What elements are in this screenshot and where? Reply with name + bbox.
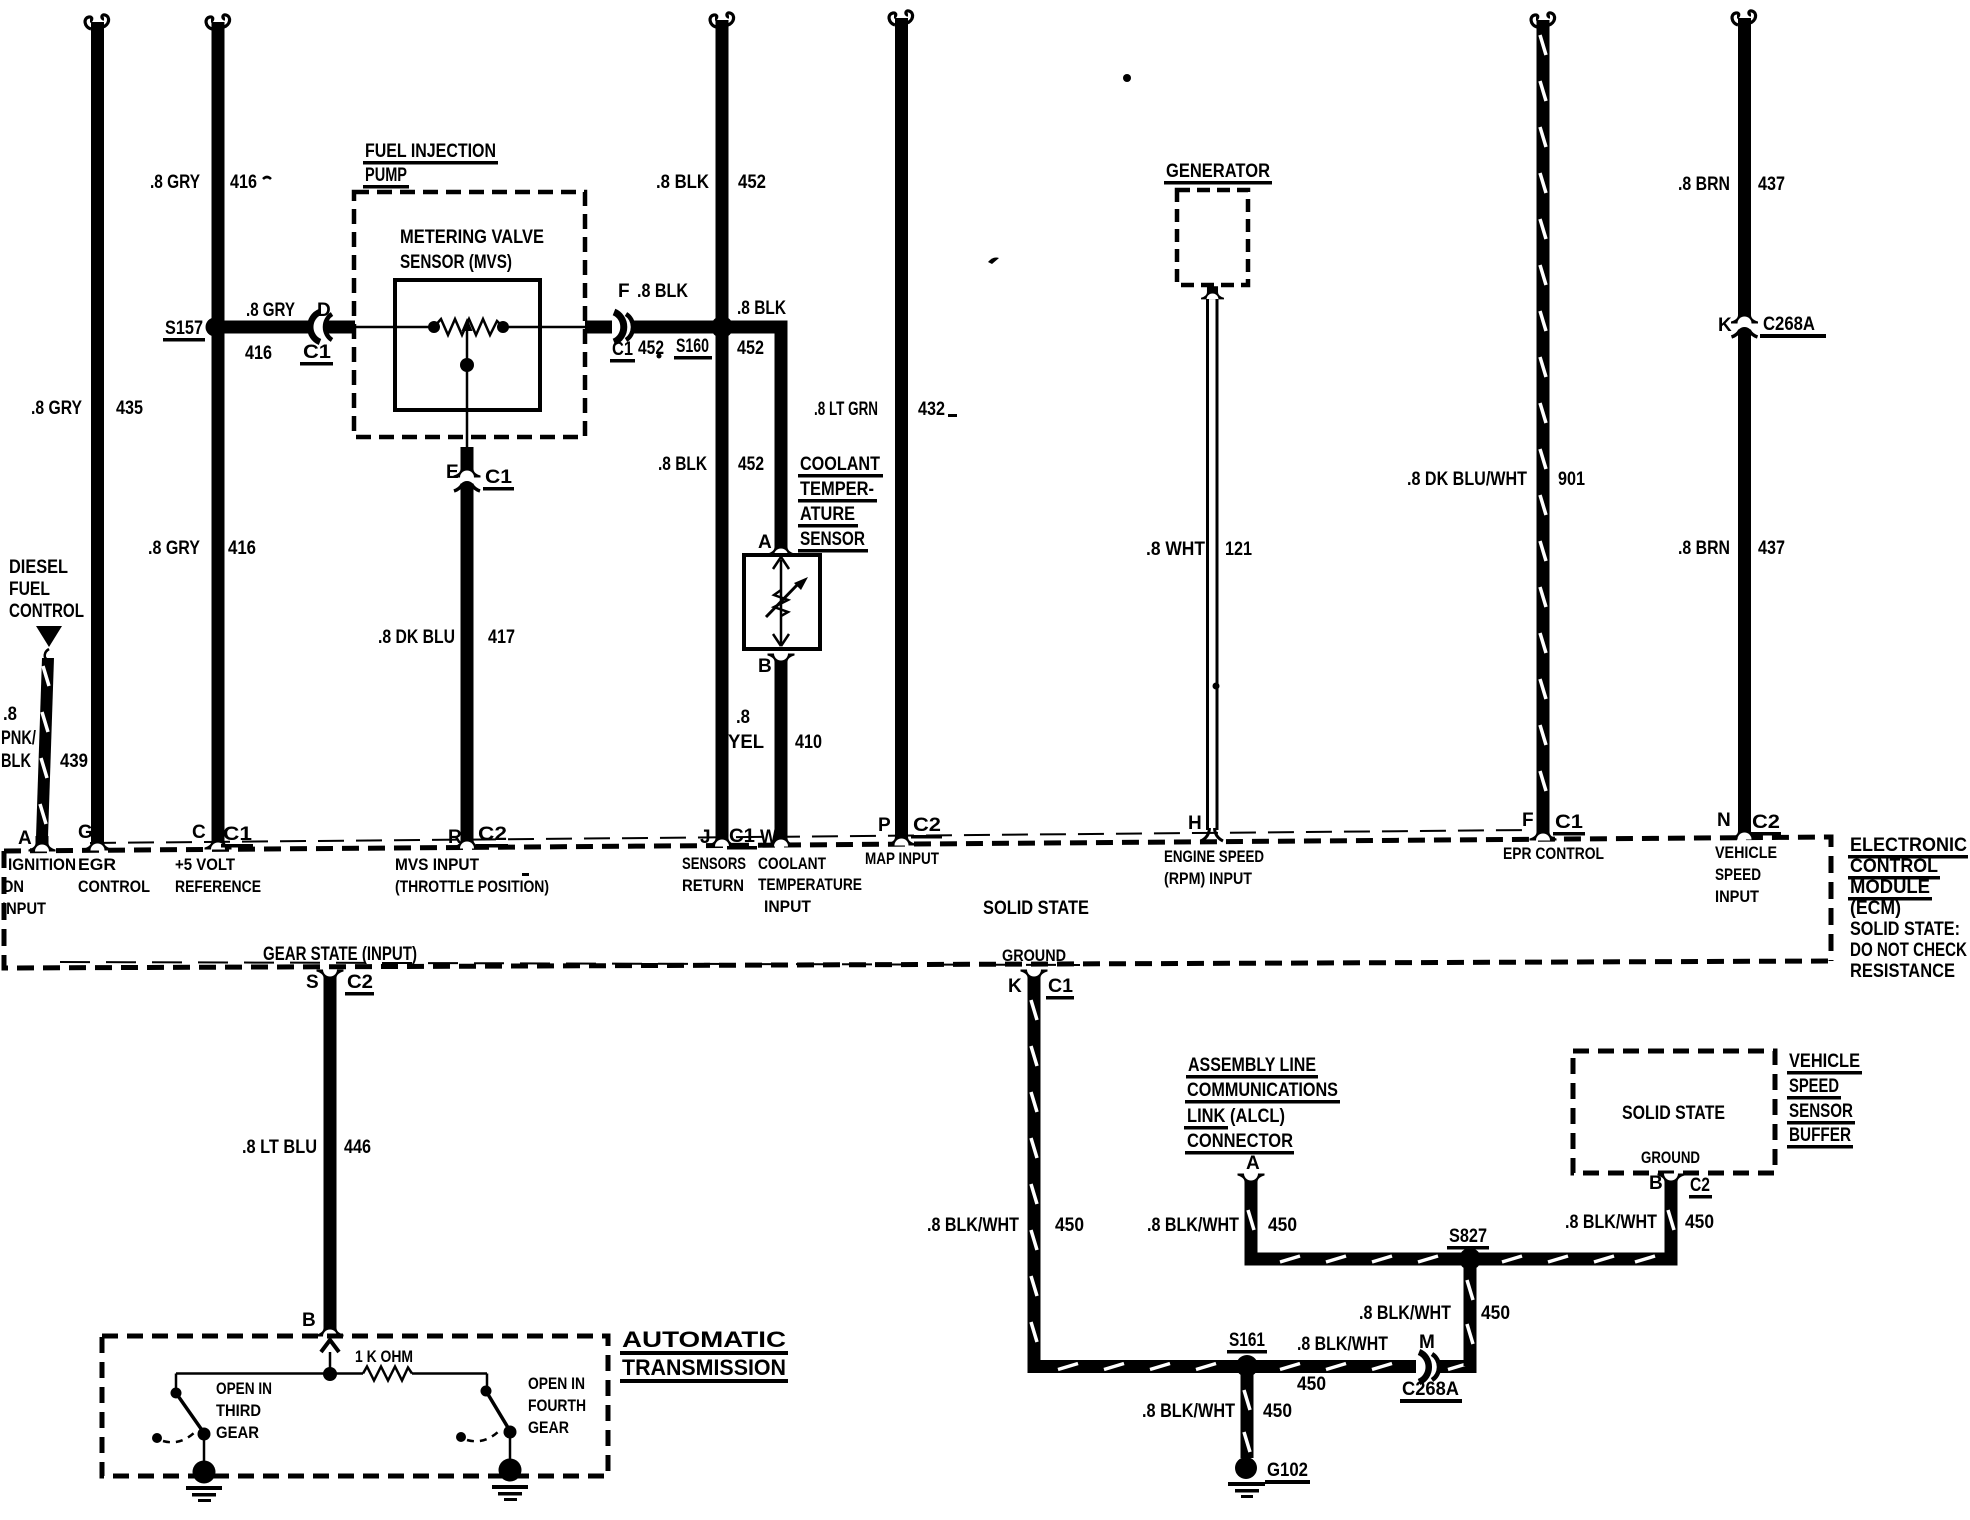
svg-text:416: 416 — [228, 538, 256, 559]
svg-text:BUFFER: BUFFER — [1789, 1125, 1851, 1146]
svg-text:446: 446 — [344, 1137, 371, 1158]
splice S161 — [1236, 1355, 1258, 1377]
switch open in third gear — [152, 1374, 272, 1471]
fuel injection pump dashed box — [354, 141, 585, 437]
ground (third gear switch) — [186, 1461, 222, 1503]
svg-text:(THROTTLE POSITION): (THROTTLE POSITION) — [395, 877, 549, 896]
terminal R / C2 — [454, 833, 481, 849]
svg-text:CONNECTOR: CONNECTOR — [1187, 1131, 1293, 1152]
svg-text:C1: C1 — [485, 467, 512, 488]
wire ECM ground .8 BLK/WHT 450 (hatched, down then right to S161) — [927, 984, 1416, 1373]
diesel fuel control connector triangle — [36, 626, 62, 647]
svg-text:.8 GRY: .8 GRY — [150, 172, 200, 193]
svg-text:439: 439 — [60, 751, 88, 772]
svg-text:TEMPERATURE: TEMPERATURE — [758, 875, 862, 894]
svg-text:.8: .8 — [3, 704, 17, 725]
MVS potentiometer — [352, 318, 585, 449]
svg-text:IGNITION: IGNITION — [8, 855, 76, 874]
svg-text:ELECTRONIC: ELECTRONIC — [1850, 835, 1967, 856]
svg-text:OPEN IN: OPEN IN — [528, 1374, 585, 1393]
svg-text:A: A — [18, 828, 32, 849]
svg-text:GROUND: GROUND — [1002, 946, 1066, 965]
svg-text:S: S — [306, 972, 319, 993]
switch open in fourth gear — [456, 1374, 586, 1469]
svg-text:C1: C1 — [1555, 812, 1583, 833]
svg-text:C1: C1 — [729, 826, 755, 847]
generator box — [1164, 161, 1272, 299]
wire gear state .8 LT BLU 446 — [242, 984, 371, 1322]
svg-text:435: 435 — [116, 398, 143, 419]
ECM title text block right side — [1848, 835, 1968, 982]
terminal H — [1201, 828, 1223, 841]
svg-text:1 K OHM: 1 K OHM — [355, 1347, 413, 1366]
svg-text:CONTROL: CONTROL — [9, 601, 84, 622]
svg-text:450: 450 — [1481, 1303, 1510, 1324]
svg-text:GEAR: GEAR — [216, 1423, 259, 1442]
wire +5V reference .8 GRY 416 — [148, 15, 271, 836]
svg-text:.8 DK BLU/WHT: .8 DK BLU/WHT — [1407, 469, 1527, 490]
svg-text:FUEL: FUEL — [9, 579, 50, 600]
svg-text:S157: S157 — [165, 318, 203, 339]
svg-text:416: 416 — [245, 343, 272, 364]
svg-text:SENSORS: SENSORS — [682, 854, 746, 873]
wire thin out of MVS to F — [503, 326, 585, 329]
coolant temperature sensor box (thermistor) — [744, 555, 820, 649]
automatic transmission title — [620, 1327, 788, 1383]
svg-text:K: K — [1008, 976, 1022, 997]
svg-text:H: H — [1188, 813, 1202, 834]
svg-text:C: C — [192, 822, 206, 843]
svg-text:PNK/: PNK/ — [1, 728, 37, 749]
svg-text:.8 BLK/WHT: .8 BLK/WHT — [927, 1215, 1019, 1236]
svg-text:CONTROL: CONTROL — [78, 877, 150, 896]
svg-text:MODULE: MODULE — [1850, 877, 1930, 898]
svg-text:SENSOR (MVS): SENSOR (MVS) — [400, 252, 512, 273]
wire ALCL A to S827 .8 BLK/WHT 450 (hatched) — [1147, 1188, 1678, 1266]
svg-text:YEL: YEL — [728, 732, 764, 753]
splice S827 — [1459, 1248, 1481, 1270]
svg-text:SOLID STATE: SOLID STATE — [983, 898, 1089, 919]
svg-text:E: E — [446, 462, 459, 483]
terminal C / C1 — [205, 834, 232, 850]
connector E / C1 — [446, 462, 514, 499]
svg-text:437: 437 — [1758, 174, 1785, 195]
wire F to S160 .8 BLK — [633, 281, 722, 360]
svg-text:450: 450 — [1268, 1215, 1297, 1236]
svg-text:.8 GRY: .8 GRY — [31, 398, 82, 419]
svg-text:INPUT: INPUT — [2, 899, 47, 918]
svg-text:C2: C2 — [913, 815, 941, 836]
svg-text:410: 410 — [795, 732, 822, 753]
svg-text:EGR: EGR — [78, 855, 116, 874]
svg-text:S827: S827 — [1449, 1226, 1487, 1247]
svg-text:.8 BLK/WHT: .8 BLK/WHT — [1297, 1334, 1388, 1355]
svg-text:COOLANT: COOLANT — [758, 854, 826, 873]
svg-text:S161: S161 — [1229, 1330, 1265, 1351]
svg-text:G: G — [78, 822, 93, 843]
svg-text:450: 450 — [1055, 1215, 1084, 1236]
svg-text:.8 WHT: .8 WHT — [1146, 539, 1205, 560]
svg-text:C268A: C268A — [1402, 1379, 1459, 1400]
svg-text:MAP INPUT: MAP INPUT — [865, 849, 939, 868]
terminal J / C1 — [709, 831, 736, 847]
terminal S / C2 gear state — [317, 970, 344, 986]
svg-text:GEAR: GEAR — [528, 1418, 569, 1437]
svg-text:SOLID STATE: SOLID STATE — [1622, 1103, 1725, 1124]
svg-text:SPEED: SPEED — [1789, 1076, 1839, 1097]
wire S160 to coolant sensor .8 BLK 452 — [722, 298, 788, 541]
svg-text:GEAR STATE (INPUT): GEAR STATE (INPUT) — [263, 944, 417, 965]
svg-text:C2: C2 — [347, 972, 373, 993]
svg-text:SOLID STATE:: SOLID STATE: — [1850, 919, 1960, 940]
svg-text:VEHICLE: VEHICLE — [1789, 1051, 1860, 1072]
svg-text:ENGINE SPEED: ENGINE SPEED — [1164, 847, 1264, 866]
svg-text:INPUT: INPUT — [764, 897, 812, 916]
svg-text:C1: C1 — [303, 342, 331, 363]
svg-text:C1: C1 — [612, 339, 633, 360]
assembly line communications link (ALCL) connector title — [1184, 1055, 1340, 1155]
wire VSS buffer B to S827 .8 BLK/WHT 450 (hatched) — [1565, 1188, 1714, 1266]
connector M / C268A — [1400, 1332, 1462, 1403]
connector K / C268A — [1718, 308, 1826, 345]
svg-text:ASSEMBLY LINE: ASSEMBLY LINE — [1188, 1055, 1316, 1076]
svg-text:RESISTANCE: RESISTANCE — [1850, 961, 1955, 982]
svg-text:W: W — [760, 827, 777, 848]
doubled scan line above ECM top edge — [90, 830, 1530, 843]
svg-text:.8 LT GRN: .8 LT GRN — [814, 399, 878, 420]
svg-text:C268A: C268A — [1763, 314, 1815, 335]
wire MAP input .8 LT GRN 432 — [814, 11, 945, 831]
svg-text:F: F — [1522, 810, 1534, 831]
svg-text:.8 BRN: .8 BRN — [1678, 174, 1730, 195]
svg-text:450: 450 — [1297, 1374, 1326, 1395]
terminal W — [768, 831, 795, 847]
svg-text:R: R — [448, 827, 462, 848]
svg-text:COMMUNICATIONS: COMMUNICATIONS — [1187, 1080, 1338, 1101]
svg-text:FUEL INJECTION: FUEL INJECTION — [365, 141, 496, 162]
svg-text:437: 437 — [1758, 538, 1785, 559]
svg-text:ON: ON — [2, 877, 24, 896]
svg-text:EPR CONTROL: EPR CONTROL — [1503, 844, 1604, 863]
svg-text:P: P — [878, 815, 891, 836]
svg-text:452: 452 — [738, 454, 764, 475]
wire EGR control .8 GRY 435 — [31, 15, 143, 837]
svg-text:.8 BLK/WHT: .8 BLK/WHT — [1565, 1212, 1657, 1233]
wire vehicle speed input .8 BRN 437 — [1678, 11, 1785, 825]
connector D / C1 — [300, 300, 355, 366]
svg-text:.8 BLK: .8 BLK — [737, 298, 786, 319]
svg-text:C1: C1 — [1048, 976, 1073, 997]
splice S160 — [711, 316, 733, 338]
coolant temperature sensor title — [798, 454, 883, 553]
svg-text:MVS INPUT: MVS INPUT — [395, 855, 480, 874]
svg-text:AUTOMATIC: AUTOMATIC — [622, 1327, 786, 1352]
wire S157 to D connector .8 GRY 416 — [218, 300, 313, 364]
svg-text:CONTROL: CONTROL — [1850, 856, 1938, 877]
svg-text:RETURN: RETURN — [682, 876, 744, 895]
svg-text:(RPM) INPUT: (RPM) INPUT — [1164, 869, 1253, 888]
svg-text:METERING VALVE: METERING VALVE — [400, 227, 544, 248]
wire S161 to ground G102 .8 BLK/WHT 450 (hatched) — [1142, 1373, 1292, 1458]
terminal K / C1 solid state ground — [1021, 970, 1048, 986]
svg-text:DO NOT CHECK: DO NOT CHECK — [1850, 940, 1967, 961]
svg-text:B: B — [302, 1310, 316, 1331]
terminal A — [29, 836, 56, 852]
svg-text:K: K — [1718, 315, 1732, 336]
svg-text:REFERENCE: REFERENCE — [175, 877, 261, 896]
svg-text:GENERATOR: GENERATOR — [1166, 161, 1270, 182]
svg-text:ATURE: ATURE — [800, 504, 855, 525]
svg-text:.8 BLK/WHT: .8 BLK/WHT — [1142, 1401, 1235, 1422]
svg-text:TEMPER-: TEMPER- — [800, 479, 874, 500]
vehicle speed sensor buffer title — [1787, 1051, 1862, 1149]
svg-text:OPEN IN: OPEN IN — [216, 1379, 272, 1398]
wiper arrow — [466, 331, 469, 365]
wire thin into MVS from D — [352, 326, 434, 329]
svg-text:452: 452 — [738, 172, 766, 193]
svg-text:SENSOR: SENSOR — [800, 529, 865, 550]
svg-text:A: A — [758, 532, 772, 553]
terminal F / C1 — [1530, 825, 1557, 841]
svg-text:B: B — [758, 656, 772, 677]
metering valve sensor (MVS) box — [395, 227, 544, 410]
svg-text:SENSOR: SENSOR — [1789, 1101, 1853, 1122]
svg-text:VEHICLE: VEHICLE — [1715, 843, 1777, 862]
connector F / C1 — [610, 281, 664, 363]
vehicle speed sensor buffer box — [1573, 1051, 1775, 1173]
svg-text:C2: C2 — [1752, 812, 1780, 833]
svg-text:COOLANT: COOLANT — [800, 454, 880, 475]
svg-text:(ECM): (ECM) — [1850, 898, 1901, 919]
svg-text:.8 GRY: .8 GRY — [148, 538, 200, 559]
svg-text:S160: S160 — [676, 336, 709, 357]
svg-text:.8 DK BLU: .8 DK BLU — [378, 627, 455, 648]
ground G102 — [1228, 1457, 1310, 1498]
svg-text:417: 417 — [488, 627, 515, 648]
wire MVS out to F connector — [585, 321, 612, 334]
svg-text:901: 901 — [1558, 469, 1585, 490]
wire MVS wiper to E — [461, 447, 474, 464]
svg-text:C2: C2 — [478, 824, 507, 845]
svg-text:450: 450 — [1263, 1401, 1292, 1422]
svg-text:THIRD: THIRD — [216, 1401, 261, 1420]
wire MVS input .8 DK BLU 417 — [378, 494, 515, 835]
svg-text:.8 GRY: .8 GRY — [246, 300, 295, 321]
svg-text:PUMP: PUMP — [365, 165, 407, 186]
svg-text:BLK: BLK — [1, 751, 31, 772]
svg-text:.8 BLK: .8 BLK — [637, 281, 688, 302]
svg-text:+5 VOLT: +5 VOLT — [175, 855, 236, 874]
svg-text:INPUT: INPUT — [1715, 887, 1760, 906]
svg-text:A: A — [1246, 1153, 1260, 1174]
svg-text:TRANSMISSION: TRANSMISSION — [622, 1355, 786, 1380]
svg-text:SPEED: SPEED — [1715, 865, 1761, 884]
ECM electronic control module box (dashed) — [4, 830, 1831, 968]
svg-text:C2: C2 — [1690, 1175, 1710, 1196]
scan speckles — [522, 74, 1220, 876]
wire coolant temp input .8 YEL 410 — [728, 668, 822, 832]
svg-text:.8 LT BLU: .8 LT BLU — [242, 1137, 317, 1158]
terminal G — [84, 835, 111, 851]
1 K OHM resistor — [176, 1347, 487, 1381]
svg-text:.8 BLK: .8 BLK — [658, 454, 707, 475]
svg-text:.8: .8 — [736, 707, 750, 728]
diesel fuel control label — [9, 557, 84, 660]
svg-text:GROUND: GROUND — [1641, 1148, 1700, 1167]
svg-text:G102: G102 — [1267, 1460, 1308, 1481]
wire M to S827 (hatched, right then up) — [1359, 1262, 1510, 1373]
svg-text:DIESEL: DIESEL — [9, 557, 68, 578]
splice S157 — [163, 318, 225, 342]
wire S161 to M connector .8 BLK/WHT 450 — [1297, 1334, 1388, 1395]
terminal N / C2 — [1731, 824, 1758, 840]
terminal P / C2 — [888, 830, 915, 846]
resistor element zigzag — [434, 319, 503, 335]
svg-text:450: 450 — [1685, 1212, 1714, 1233]
wire EPR control .8 DK BLU/WHT 901 (hatched) — [1407, 13, 1585, 826]
svg-text:416: 416 — [230, 172, 257, 193]
wire ignition on input .8 PNK/BLK 439 (hatched) — [1, 658, 88, 837]
svg-text:LINK (ALCL): LINK (ALCL) — [1187, 1106, 1285, 1127]
automatic transmission dashed box — [102, 1336, 608, 1476]
svg-text:.8 BLK/WHT: .8 BLK/WHT — [1359, 1303, 1451, 1324]
svg-text:N: N — [1717, 810, 1731, 831]
wiper lead down — [466, 365, 469, 449]
ECM terminal labels — [2, 843, 1777, 965]
ground (fourth gear switch) — [492, 1459, 528, 1502]
svg-text:.8 BLK/WHT: .8 BLK/WHT — [1147, 1215, 1239, 1236]
wire engine speed .8 WHT 121 (double line) — [1146, 299, 1252, 830]
svg-text:.8 BRN: .8 BRN — [1678, 538, 1730, 559]
wire sensors return .8 BLK 452 — [656, 13, 766, 832]
svg-text:FOURTH: FOURTH — [528, 1396, 586, 1415]
svg-text:452: 452 — [737, 338, 764, 359]
svg-text:432: 432 — [918, 399, 945, 420]
svg-text:121: 121 — [1225, 539, 1252, 560]
svg-text:C1: C1 — [223, 824, 253, 845]
svg-text:F: F — [618, 281, 630, 302]
svg-text:J: J — [700, 827, 711, 848]
svg-text:.8 BLK: .8 BLK — [656, 172, 709, 193]
